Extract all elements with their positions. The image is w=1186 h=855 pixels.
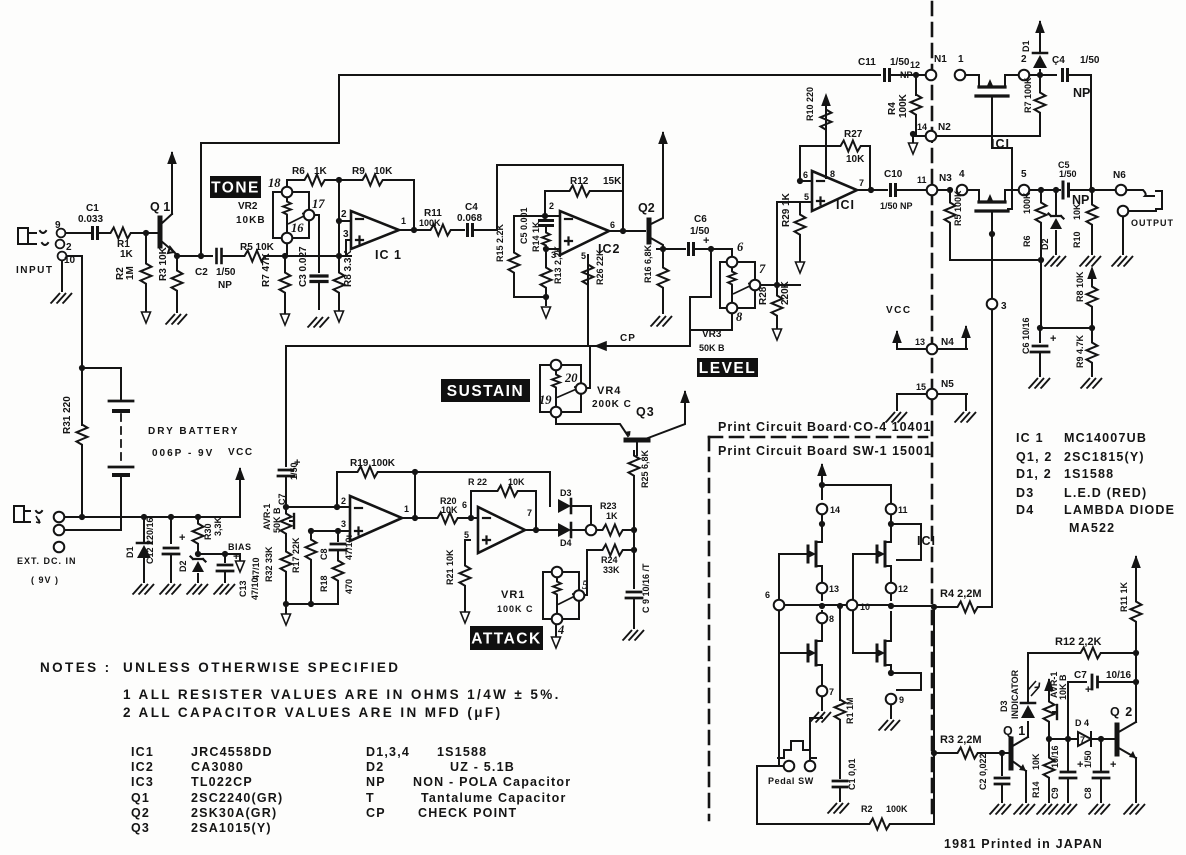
svg-text:+: +: [233, 551, 239, 563]
svg-text:19: 19: [539, 393, 552, 407]
svg-text:IC2: IC2: [131, 760, 154, 774]
svg-text:R14 1K: R14 1K: [531, 221, 541, 252]
svg-text:INDICATOR: INDICATOR: [1010, 669, 1020, 719]
svg-text:3: 3: [343, 229, 349, 240]
svg-text:R24: R24: [601, 555, 618, 565]
svg-text:1/50: 1/50: [289, 462, 299, 480]
svg-text:VCC: VCC: [228, 447, 254, 458]
svg-text:CP: CP: [366, 806, 386, 820]
svg-text:C7: C7: [1074, 670, 1087, 681]
svg-text:15K: 15K: [603, 176, 622, 187]
svg-text:Ç4: Ç4: [1052, 55, 1065, 66]
svg-text:D1: D1: [1021, 40, 1031, 52]
svg-text:1/50: 1/50: [1080, 55, 1100, 66]
svg-text:2: 2: [66, 242, 72, 253]
svg-text:N6: N6: [1113, 170, 1126, 181]
svg-text:NON - POLA Capacitor: NON - POLA Capacitor: [413, 775, 571, 789]
svg-text:NP: NP: [1073, 86, 1090, 100]
svg-text:VR1: VR1: [501, 589, 525, 601]
svg-text:ICI: ICI: [917, 534, 936, 548]
svg-text:CA3080: CA3080: [191, 760, 244, 774]
svg-text:C2: C2: [195, 267, 208, 278]
svg-text:+: +: [1110, 759, 1116, 771]
svg-text:2: 2: [341, 209, 347, 220]
svg-text:10: 10: [64, 255, 76, 266]
svg-text:10K: 10K: [1031, 753, 1041, 770]
svg-text:NP: NP: [366, 775, 386, 789]
svg-text:9: 9: [55, 220, 61, 231]
svg-text:100K: 100K: [1022, 192, 1032, 214]
svg-text:8: 8: [829, 614, 834, 624]
svg-text:UZ - 5.1B: UZ - 5.1B: [450, 760, 515, 774]
svg-text:6: 6: [765, 590, 770, 600]
svg-text:0.033: 0.033: [78, 214, 103, 225]
svg-text:47/10: 47/10: [251, 557, 261, 580]
svg-text:1/50: 1/50: [1059, 169, 1077, 179]
svg-text:14: 14: [917, 122, 927, 132]
svg-text:1: 1: [404, 504, 409, 514]
svg-text:Q1, 2: Q1, 2: [1016, 450, 1053, 464]
svg-text:C8: C8: [319, 548, 329, 560]
svg-text:VR4: VR4: [597, 385, 621, 397]
svg-text:R29 1K: R29 1K: [781, 192, 792, 227]
svg-text:Q 2: Q 2: [1110, 705, 1133, 719]
svg-text:R25 6,8K: R25 6,8K: [640, 449, 650, 488]
svg-text:7: 7: [759, 262, 766, 276]
svg-text:1/50 NP: 1/50 NP: [880, 201, 913, 211]
svg-text:13: 13: [829, 584, 839, 594]
svg-text:IC3: IC3: [131, 775, 154, 789]
svg-text:7: 7: [829, 687, 834, 697]
svg-text:R6: R6: [292, 166, 305, 177]
svg-text:1S1588: 1S1588: [1064, 467, 1114, 481]
svg-text:5: 5: [1021, 169, 1027, 180]
svg-text:R8 3.3K: R8 3.3K: [343, 250, 354, 287]
svg-text:+: +: [1085, 684, 1091, 696]
svg-text:D4: D4: [1016, 503, 1034, 517]
svg-text:200K C: 200K C: [592, 399, 632, 410]
svg-text:VCC: VCC: [886, 305, 912, 316]
svg-text:2SC2240(GR): 2SC2240(GR): [191, 791, 283, 805]
svg-text:R19 100K: R19 100K: [350, 458, 396, 469]
svg-text:7: 7: [527, 508, 532, 518]
svg-text:C1 0,01: C1 0,01: [847, 758, 857, 790]
svg-text:C9: C9: [1050, 787, 1060, 799]
svg-text:+: +: [179, 532, 185, 544]
svg-text:C5 0.001: C5 0.001: [519, 207, 529, 244]
svg-text:3,3K: 3,3K: [213, 516, 223, 536]
svg-text:R12 2,2K: R12 2,2K: [1055, 636, 1102, 648]
svg-text:D3: D3: [999, 700, 1009, 712]
svg-text:Q2: Q2: [638, 201, 655, 215]
svg-text:100K: 100K: [898, 93, 909, 118]
svg-text:D2: D2: [1040, 238, 1050, 250]
svg-text:7: 7: [859, 178, 864, 188]
svg-text:JRC4558DD: JRC4558DD: [191, 745, 273, 759]
svg-text:1K: 1K: [314, 166, 328, 177]
svg-text:C6: C6: [694, 214, 707, 225]
svg-text:5: 5: [581, 251, 586, 261]
svg-text:C12 220/16: C12 220/16: [145, 517, 155, 564]
svg-text:C4: C4: [465, 202, 478, 213]
svg-text:1: 1: [401, 216, 406, 226]
svg-text:NOTES :: NOTES :: [40, 660, 112, 675]
svg-text:100K: 100K: [886, 804, 908, 814]
svg-text:6: 6: [462, 500, 467, 510]
svg-text:R3 10K: R3 10K: [158, 246, 169, 281]
svg-text:D1,3,4: D1,3,4: [366, 745, 410, 759]
svg-text:ATTACK: ATTACK: [471, 631, 541, 648]
svg-text:1981 Printed in JAPAN: 1981 Printed in JAPAN: [944, 837, 1103, 851]
svg-text:L.E.D (RED): L.E.D (RED): [1064, 486, 1147, 500]
svg-text:Q3: Q3: [131, 821, 150, 835]
svg-text:N4: N4: [941, 337, 954, 348]
svg-text:17: 17: [312, 197, 325, 211]
svg-text:UNLESS OTHERWISE SPECIFIED: UNLESS OTHERWISE SPECIFIED: [123, 660, 400, 675]
svg-text:C3 0.027: C3 0.027: [298, 246, 309, 287]
svg-text:10K B: 10K B: [1058, 674, 1068, 700]
svg-text:R7 47K: R7 47K: [261, 252, 272, 287]
svg-text:Pedal SW: Pedal SW: [768, 776, 814, 786]
svg-text:1 ALL RESISTER VALUES: 1 ALL RESISTER VALUES ARE IN OHMS 1/4W ±…: [123, 687, 561, 702]
svg-text:47/10: 47/10: [344, 537, 354, 560]
svg-text:+: +: [1050, 333, 1056, 345]
svg-text:10K: 10K: [846, 154, 865, 165]
svg-text:R30: R30: [203, 523, 213, 540]
svg-text:DRY BATTERY: DRY BATTERY: [148, 426, 239, 437]
svg-text:006P - 9V: 006P - 9V: [152, 448, 214, 459]
svg-text:2SK30A(GR): 2SK30A(GR): [191, 806, 277, 820]
svg-text:C 9 10/16 /T: C 9 10/16 /T: [641, 563, 651, 613]
svg-text:MC14007UB: MC14007UB: [1064, 431, 1147, 445]
svg-text:TONE: TONE: [211, 180, 260, 197]
svg-text:R32 33K: R32 33K: [264, 546, 274, 582]
svg-text:( 9V ): ( 9V ): [31, 575, 59, 585]
svg-text:1/50: 1/50: [890, 57, 910, 68]
svg-text:SUSTAIN: SUSTAIN: [447, 383, 524, 400]
svg-text:VR3: VR3: [702, 329, 722, 340]
svg-text:2: 2: [1021, 54, 1027, 65]
svg-text:470: 470: [344, 579, 354, 594]
svg-text:R21 10K: R21 10K: [445, 549, 455, 585]
svg-text:R10 220: R10 220: [805, 87, 815, 121]
svg-text:R15 2.2K: R15 2.2K: [495, 223, 505, 262]
svg-text:2SA1015(Y): 2SA1015(Y): [191, 821, 272, 835]
svg-text:T: T: [366, 791, 375, 805]
svg-text:OUTPUT: OUTPUT: [1131, 218, 1174, 228]
svg-text:R17 22K: R17 22K: [291, 537, 301, 573]
svg-text:8: 8: [736, 310, 743, 324]
svg-text:R5 100K: R5 100K: [953, 190, 963, 226]
svg-text:220K: 220K: [780, 280, 791, 305]
svg-text:3: 3: [551, 250, 556, 260]
svg-text:R9: R9: [352, 166, 365, 177]
svg-text:Print Circuit Board·CO-4 1: Print Circuit Board·CO-4 10401: [718, 420, 931, 434]
svg-text:D3: D3: [560, 488, 572, 498]
svg-text:8: 8: [830, 169, 835, 179]
svg-text:C10: C10: [884, 169, 903, 180]
svg-text:INPUT: INPUT: [16, 265, 54, 276]
svg-text:VR2: VR2: [238, 201, 258, 212]
svg-text:4: 4: [557, 623, 564, 637]
svg-text:5: 5: [464, 530, 469, 540]
svg-text:CHECK POINT: CHECK POINT: [418, 806, 517, 820]
svg-text:3: 3: [1001, 301, 1007, 312]
svg-text:R6: R6: [1022, 235, 1032, 247]
svg-text:C1: C1: [86, 203, 99, 214]
svg-text:10K: 10K: [508, 477, 525, 487]
svg-text:C2 0,022: C2 0,022: [978, 753, 988, 790]
svg-text:AVR-1: AVR-1: [262, 504, 272, 530]
svg-text:33K: 33K: [603, 565, 620, 575]
svg-text:D1: D1: [125, 546, 135, 558]
svg-text:R31 220: R31 220: [62, 396, 73, 434]
svg-text:LEVEL: LEVEL: [699, 360, 756, 377]
svg-text:BIAS: BIAS: [228, 542, 252, 552]
svg-text:2SC1815(Y): 2SC1815(Y): [1064, 450, 1145, 464]
svg-text:R16 6,8K: R16 6,8K: [643, 244, 653, 283]
svg-text:6: 6: [803, 170, 808, 180]
svg-text:R8 10K: R8 10K: [1075, 271, 1085, 302]
svg-text:TL022CP: TL022CP: [191, 775, 253, 789]
svg-text:5: 5: [804, 192, 809, 202]
svg-text:N3: N3: [939, 173, 952, 184]
svg-text:6: 6: [737, 240, 744, 254]
svg-text:50K B: 50K B: [699, 343, 725, 353]
svg-text:15: 15: [916, 382, 926, 392]
svg-text:7: 7: [1080, 735, 1085, 745]
svg-text:R2: R2: [861, 804, 873, 814]
svg-text:100K: 100K: [419, 218, 441, 228]
svg-text:Tantalume Capacitor: Tantalume Capacitor: [421, 791, 567, 805]
svg-text:D 4: D 4: [1075, 718, 1089, 728]
svg-text:12: 12: [898, 584, 908, 594]
svg-text:EXT. DC. IN: EXT. DC. IN: [17, 556, 77, 566]
svg-text:1/50: 1/50: [1083, 750, 1093, 768]
svg-text:NP: NP: [900, 70, 913, 80]
svg-text:R27: R27: [844, 129, 863, 140]
svg-text:C8: C8: [1083, 787, 1093, 799]
svg-text:D3: D3: [1016, 486, 1034, 500]
svg-text:ICI: ICI: [836, 198, 855, 212]
svg-text:10K: 10K: [374, 166, 393, 177]
svg-text:C13: C13: [238, 580, 248, 597]
svg-text:Print Circuit Board SW-1 1: Print Circuit Board SW-1 15001: [718, 444, 932, 458]
svg-text:R4 2,2M: R4 2,2M: [940, 588, 982, 600]
svg-text:10K: 10K: [441, 505, 458, 515]
svg-text:20: 20: [564, 371, 578, 385]
svg-text:Q3: Q3: [636, 405, 655, 419]
svg-text:D1, 2: D1, 2: [1016, 467, 1052, 481]
svg-text:13: 13: [915, 337, 925, 347]
svg-text:R5 10K: R5 10K: [240, 242, 275, 253]
svg-text:50K B: 50K B: [272, 507, 282, 533]
svg-text:18: 18: [268, 176, 281, 190]
svg-text:+: +: [703, 235, 709, 247]
svg-text:11: 11: [898, 505, 908, 515]
svg-text:1K: 1K: [120, 249, 134, 260]
svg-text:C11: C11: [858, 57, 876, 68]
svg-text:R18: R18: [319, 575, 329, 592]
svg-text:MA522: MA522: [1069, 521, 1115, 535]
svg-text:R9 4.7K: R9 4.7K: [1075, 334, 1085, 368]
svg-text:Q 1: Q 1: [150, 200, 170, 214]
svg-text:9: 9: [899, 695, 904, 705]
svg-text:14: 14: [830, 505, 840, 515]
svg-text:R12: R12: [570, 176, 589, 187]
svg-text:R23: R23: [600, 501, 617, 511]
svg-text:R1 1M: R1 1M: [845, 697, 855, 724]
svg-text:C6 10/16: C6 10/16: [1021, 317, 1031, 354]
svg-text:R4: R4: [887, 102, 898, 115]
svg-text:IC1: IC1: [131, 745, 154, 759]
svg-text:CP: CP: [620, 333, 636, 344]
svg-text:10/16: 10/16: [1050, 745, 1060, 768]
svg-text:R11 1K: R11 1K: [1119, 581, 1129, 612]
svg-text:3: 3: [341, 519, 346, 529]
svg-text:10KB: 10KB: [236, 215, 266, 226]
svg-text:D2: D2: [366, 760, 384, 774]
svg-text:R3 2,2M: R3 2,2M: [940, 734, 982, 746]
svg-text:Q 1: Q 1: [1003, 724, 1026, 738]
svg-text:R28: R28: [758, 286, 769, 305]
svg-text:IC 1: IC 1: [375, 248, 402, 262]
svg-text:4: 4: [959, 169, 965, 180]
svg-text:R14: R14: [1031, 781, 1041, 798]
svg-text:IC 1: IC 1: [1016, 431, 1044, 445]
svg-text:2: 2: [549, 201, 554, 211]
svg-text:N5: N5: [941, 379, 954, 390]
svg-text:LAMBDA DIODE: LAMBDA DIODE: [1064, 503, 1175, 517]
svg-text:ICI: ICI: [991, 137, 1010, 151]
svg-text:11: 11: [917, 175, 927, 185]
svg-text:R7 100K: R7 100K: [1023, 77, 1033, 113]
svg-text:1S1588: 1S1588: [437, 745, 487, 759]
svg-text:6: 6: [610, 220, 615, 230]
svg-text:10/16: 10/16: [1106, 670, 1131, 681]
svg-text:NP: NP: [218, 280, 232, 291]
svg-text:12: 12: [910, 60, 920, 70]
svg-text:R10: R10: [1072, 231, 1082, 248]
svg-text:R 22: R 22: [468, 477, 487, 487]
svg-text:2 ALL CAPACITOR VALUES: 2 ALL CAPACITOR VALUES ARE IN MFD (μF): [123, 705, 502, 720]
svg-text:Q1: Q1: [131, 791, 150, 805]
svg-text:1M: 1M: [125, 266, 136, 280]
svg-text:1/50: 1/50: [216, 267, 236, 278]
svg-text:N1: N1: [934, 54, 947, 65]
svg-text:N2: N2: [938, 122, 951, 133]
svg-text:R26 22K: R26 22K: [595, 249, 605, 285]
svg-text:0.068: 0.068: [457, 213, 482, 224]
svg-text:D4: D4: [560, 538, 572, 548]
svg-text:Q2: Q2: [131, 806, 150, 820]
svg-text:C7: C7: [277, 493, 287, 505]
svg-text:10: 10: [860, 602, 870, 612]
svg-text:1K: 1K: [606, 511, 618, 521]
svg-text:1: 1: [958, 54, 964, 65]
svg-text:16: 16: [291, 221, 304, 235]
svg-text:100K C: 100K C: [497, 604, 534, 614]
svg-text:5: 5: [582, 578, 588, 592]
svg-text:2: 2: [341, 496, 346, 506]
svg-text:10K: 10K: [1072, 203, 1082, 220]
svg-text:D2: D2: [178, 560, 188, 572]
